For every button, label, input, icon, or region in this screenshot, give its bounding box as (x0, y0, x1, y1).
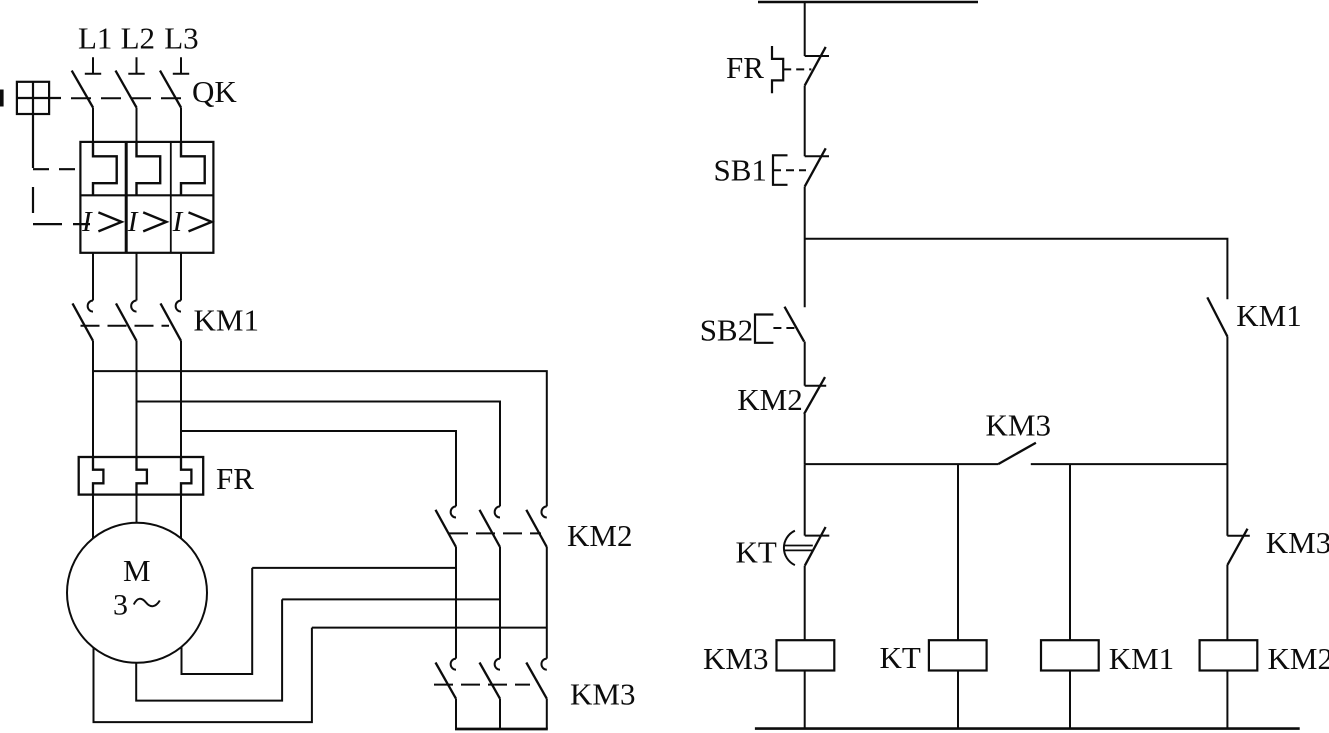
svg-text:L1: L1 (78, 20, 112, 55)
wire KM3 pole2 to star bus (499, 699, 501, 729)
breaker QK pole 1 blade (72, 71, 93, 108)
coil KM3 (777, 640, 835, 670)
junction row horizontal (left part) (805, 463, 999, 465)
wire breaker to KM1 pole1 (92, 253, 94, 301)
wire KM2 coil to bottom rail (1226, 671, 1228, 729)
wire KM1 coil to bottom rail (1069, 671, 1071, 729)
contactor KM1 main contact pole 1 (73, 301, 94, 341)
time relay KT delayed NC contact (784, 527, 829, 566)
KM3 linkage (dashed) (434, 684, 530, 686)
contactor KM3 main contact pole 3 (526, 659, 547, 699)
wire KT contact to KM3 coil (804, 566, 806, 641)
control circuit top rail (758, 1, 978, 3)
svg-text:I: I (172, 206, 184, 238)
wire junction row to KM2 pole1 bottom (252, 567, 456, 569)
wire breaker to KM1 pole3 (180, 253, 182, 301)
wire junction row to KM2 pole3 bottom (312, 627, 547, 629)
svg-text:KM3: KM3 (570, 677, 635, 712)
coil KT (929, 640, 987, 670)
thermal relay FR box (79, 457, 204, 495)
breaker QK trip linkage rod (dashed) (33, 114, 90, 224)
contactor KM2 main contact pole 3 (526, 506, 547, 547)
control circuit bottom rail (755, 727, 1300, 730)
wire junction to KM1 aux branch (805, 239, 1228, 300)
svg-text:KM1: KM1 (1236, 298, 1301, 333)
FR trip actuator bracket (772, 46, 783, 93)
wire QK pole1 to breaker block (92, 108, 94, 142)
junction row horizontal (right part) (1031, 463, 1228, 465)
KM1 linkage (dashed) (81, 325, 170, 327)
wire FR to motor lead 3 (180, 495, 182, 539)
wire top rail to FR contact (804, 2, 806, 56)
breaker QK magnetic trip pole 3 (181, 142, 205, 195)
contactor KM1 NO self-holding contact (1207, 297, 1227, 336)
wire KM3 interlock to KM2 coil (1226, 565, 1228, 640)
wire junction row down to KM1 coil (1069, 464, 1071, 640)
wire KM1 pole3 down to FR (180, 341, 182, 457)
svg-text:I: I (81, 206, 93, 238)
wire QK pole2 to breaker block (136, 108, 138, 142)
SB1 button actuator (773, 155, 788, 185)
wire SB1 to SB2 (with junction to KM1 branch) (804, 187, 806, 308)
svg-text:KM3: KM3 (703, 641, 768, 676)
contactor KM2 NC interlock contact (804, 377, 826, 414)
FR NC contact (control) (805, 47, 829, 86)
breaker QK manual operator box (0, 82, 61, 114)
svg-text:KM2: KM2 (1268, 641, 1329, 676)
wire KM2 pole2 to KM3 pole2 (499, 547, 501, 659)
wire KM3 pole3 to star bus (546, 699, 548, 729)
FR actuator dashes (783, 68, 811, 70)
pushbutton SB2 NO contact (785, 307, 805, 342)
SB2 actuator dashes (773, 327, 795, 329)
contactor KM1 main contact pole 2 (116, 301, 137, 341)
contactor KM2 main contact pole 2 (480, 506, 501, 547)
svg-text:SB2: SB2 (700, 312, 753, 347)
svg-text:L2: L2 (121, 20, 155, 55)
svg-text:KM1: KM1 (1109, 641, 1174, 676)
wire KM2 contact to junction row (804, 414, 806, 464)
FR heater pole 2 (137, 457, 147, 495)
wire FR to SB1 (804, 86, 806, 157)
wire FR to motor lead 2 (136, 495, 138, 523)
FR heater pole 1 (93, 457, 103, 495)
wire KM3 coil to bottom rail (804, 671, 806, 729)
SB1 actuator dashes (773, 169, 806, 171)
breaker QK overcurrent I> pole 2 (127, 206, 167, 238)
wire FR to motor lead 1 (92, 495, 94, 539)
wire KM1 pole2 down to FR (136, 341, 138, 457)
contactor KM2 main contact pole 1 (436, 506, 457, 547)
star point bus (455, 728, 548, 731)
wire KM2 pole3 to KM3 pole3 (546, 547, 548, 659)
svg-text:KT: KT (880, 640, 921, 675)
terminal L1 (85, 57, 101, 73)
wire KM2 pole1 to KM3 pole1 (455, 547, 457, 659)
wire phase3 to KM2 pole1 (top horizontal) (181, 431, 456, 506)
contactor KM3 NC interlock contact (right branch) (1227, 529, 1250, 565)
pushbutton SB1 NC contact (805, 148, 829, 186)
svg-text:L3: L3 (164, 20, 198, 55)
FR heater pole 3 (181, 457, 191, 495)
wire breaker to KM1 pole2 (136, 253, 138, 301)
KM2 linkage (dashed) (449, 532, 541, 534)
terminal L2 (128, 57, 144, 73)
contactor KM3 main contact pole 2 (480, 659, 501, 699)
terminal L3 (173, 57, 189, 73)
wire QK pole3 to breaker block (180, 108, 182, 142)
svg-text:KM3: KM3 (1266, 525, 1329, 560)
coil KM2 (1200, 640, 1258, 670)
breaker QK pole 2 blade (116, 71, 137, 108)
wire KM1 pole1 down to FR (92, 341, 94, 457)
svg-text:I: I (127, 206, 139, 238)
wire junction row to KM2 pole2 bottom (282, 598, 500, 600)
wire phase1 to KM2 pole3 (top horizontal) (93, 371, 547, 506)
wire KT coil to bottom rail (957, 671, 959, 729)
SB2 button actuator (755, 315, 773, 343)
wire KM1 contact down through junction row (1226, 337, 1228, 536)
contactor KM3 NO bridging contact (998, 443, 1036, 464)
wire motor lead6 (inner route) (182, 568, 253, 674)
contactor KM1 main contact pole 3 (161, 301, 182, 341)
svg-text:KT: KT (736, 535, 777, 570)
wire junction row down to KT coil (957, 464, 959, 640)
svg-text:FR: FR (216, 461, 254, 496)
svg-text:QK: QK (192, 74, 237, 109)
coil KM1 (1041, 640, 1099, 670)
svg-text:KM2: KM2 (737, 382, 802, 417)
wire motor lead4 to KM3 bus (bottom-left route) (94, 628, 312, 723)
wire KM3 pole1 to star bus (455, 699, 457, 729)
wire phase2 to KM2 pole2 (top horizontal) (137, 402, 501, 507)
svg-text:M: M (123, 553, 151, 588)
wire SB2 to KM2 contact (804, 342, 806, 386)
wire junction row down (left branch to KT contact) (804, 464, 806, 535)
svg-text:KM2: KM2 (567, 518, 632, 553)
breaker QK overcurrent I> pole 3 (172, 206, 212, 238)
svg-text:3: 3 (113, 589, 128, 622)
motor M 3~ (67, 523, 207, 663)
breaker QK trip-unit block (80, 142, 213, 253)
svg-text:KM3: KM3 (986, 408, 1051, 443)
breaker QK magnetic trip pole 2 (137, 142, 161, 195)
svg-text:KM1: KM1 (194, 303, 259, 338)
breaker QK pole 3 blade (160, 71, 181, 108)
svg-text:FR: FR (726, 50, 764, 85)
breaker QK magnetic trip pole 1 (93, 142, 117, 195)
svg-text:SB1: SB1 (714, 153, 767, 188)
wire motor lead5 (center route) (136, 599, 282, 700)
contactor KM3 main contact pole 1 (436, 659, 457, 699)
breaker QK overcurrent I> pole 1 (81, 206, 122, 238)
breaker QK linkage (dashed) (61, 97, 190, 99)
